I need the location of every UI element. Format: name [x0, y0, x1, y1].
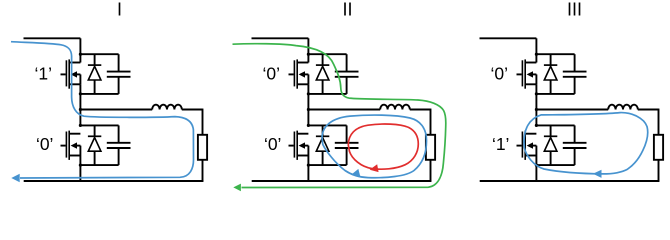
capacitor C1L top lead	[118, 125, 120, 142]
transistor Q1H source link	[79, 74, 81, 84]
wire inductor to load 1	[182, 109, 203, 111]
transistor Q3H gate lead	[517, 73, 522, 75]
junction bottom node 3H	[535, 92, 538, 95]
wire right rail lower 3	[658, 160, 660, 181]
transistor Q1L arrow tail	[77, 145, 81, 147]
wire lower cell top line 3L	[536, 124, 574, 126]
transistor Q2L drain stub	[297, 133, 308, 135]
transistor Q1L drain stub	[69, 133, 80, 135]
arrow blue panel I exit	[11, 174, 19, 183]
transistor Q3L drain stub	[525, 133, 536, 135]
arrow blue loop panel II	[350, 169, 360, 179]
wire right rail upper 1	[202, 109, 204, 135]
transistor Q2H gate bar	[293, 60, 295, 86]
node DC+ bus panel 2	[252, 37, 309, 39]
capacitor C2L bottom plate	[335, 147, 359, 149]
wire right rail upper 3	[658, 109, 660, 135]
transistor Q2H body arrow	[299, 71, 305, 77]
transistor Q3H channel bar	[524, 59, 526, 88]
capacitor C3H top plate	[563, 71, 587, 73]
wire rail drain 2H	[307, 38, 309, 62]
junction mid node 2	[307, 108, 310, 111]
transistor Q1L gate bar	[65, 132, 67, 158]
diode D3H triangle	[544, 66, 557, 80]
node DC+ bus panel 1	[24, 37, 81, 39]
capacitor C2L top plate	[335, 142, 359, 144]
wire rail source 1H	[79, 84, 81, 94]
node DC- bus panel 3	[480, 180, 660, 182]
wire right rail upper 2	[430, 109, 432, 135]
transistor Q1H source stub	[69, 83, 80, 85]
diode D1L anode wire	[94, 151, 96, 165]
transistor Q2L gate lead	[289, 145, 294, 147]
wire rail mid 2	[307, 94, 309, 126]
transistor Q1H arrow tail	[77, 73, 81, 75]
wire top node line 3H	[536, 53, 574, 55]
transistor Q1L source stub	[69, 155, 80, 157]
wire top node line 2H	[308, 53, 346, 55]
wire inductor to load 2	[410, 109, 431, 111]
wire right rail lower 2	[430, 160, 432, 181]
diode D2H triangle	[316, 66, 329, 80]
wire blue current path panel I	[11, 42, 194, 178]
wire right rail lower 1	[202, 160, 204, 181]
transistor Q3L channel bar	[524, 131, 526, 160]
transistor Q1H body arrow	[71, 71, 77, 77]
diode D2H cathode wire	[322, 54, 324, 65]
transistor Q2L channel bar	[296, 131, 298, 160]
wire rail mid 1	[79, 94, 81, 126]
transistor Q3H source stub	[525, 83, 536, 85]
wire lower cell bottom line 3L	[536, 164, 574, 166]
wire rail drain 3H	[535, 38, 537, 62]
arrow blue loop panel III	[593, 170, 602, 178]
wire rail source 1L	[79, 156, 81, 166]
junction bottom node 1H	[79, 92, 82, 95]
junction lower cell top 2	[307, 124, 310, 127]
wire mid rail to inductor 1	[80, 109, 152, 111]
transistor Q2L gate bar	[293, 132, 295, 158]
capacitor C1L top plate	[107, 142, 131, 144]
inductor L1	[152, 105, 182, 110]
transistor Q1L channel bar	[68, 131, 70, 160]
wire top node line 1H	[80, 53, 118, 55]
junction top node 1H	[79, 53, 82, 56]
capacitor C2H top plate	[335, 71, 359, 73]
transistor Q1H channel bar	[68, 59, 70, 88]
capacitor C3H bottom plate	[563, 76, 587, 78]
capacitor C2H top lead	[346, 54, 348, 71]
diode D1L triangle	[88, 138, 101, 152]
svg-text:III: III	[567, 0, 582, 20]
capacitor C1H top plate	[107, 71, 131, 73]
wire lower cell top line 2L	[308, 124, 346, 126]
diode D2L triangle	[316, 138, 329, 152]
junction mid node 1	[79, 108, 82, 111]
svg-text:I: I	[117, 0, 122, 20]
transistor Q2L body arrow	[299, 142, 305, 148]
transistor Q3H arrow tail	[533, 73, 537, 75]
capacitor C3H bottom lead	[574, 77, 576, 94]
transistor Q1H gate lead	[61, 73, 66, 75]
capacitor C2L bottom lead	[346, 148, 348, 165]
capacitor C3L top lead	[574, 125, 576, 142]
diode D1H cathode wire	[94, 54, 96, 65]
wire mid rail to inductor 2	[308, 109, 380, 111]
junction bottom node 2H	[307, 92, 310, 95]
diode D2L anode wire	[322, 151, 324, 165]
transistor Q2H drain stub	[297, 62, 308, 64]
transistor Q2L arrow tail	[305, 145, 309, 147]
wire lower cell bottom line 2L	[308, 164, 346, 166]
wire rail to DC- 2	[307, 165, 309, 182]
diode D1L cathode bar	[88, 135, 101, 137]
diode D1H cathode bar	[88, 64, 101, 66]
resistor R3 load	[654, 135, 663, 160]
svg-text:‘0’: ‘0’	[263, 63, 281, 83]
capacitor C3L bottom plate	[563, 147, 587, 149]
svg-text:‘0’: ‘0’	[264, 134, 282, 154]
diode D2H cathode bar	[316, 64, 329, 66]
capacitor C3L bottom lead	[574, 148, 576, 165]
junction top node 3H	[535, 53, 538, 56]
capacitor C2H bottom plate	[335, 76, 359, 78]
inductor L2	[380, 105, 410, 110]
wire rail source 2L	[307, 156, 309, 166]
wire lower cell bottom line 1L	[80, 164, 118, 166]
capacitor C3H top lead	[574, 54, 576, 71]
wire rail to DC- 1	[79, 165, 81, 182]
transistor Q3H body arrow	[527, 71, 533, 77]
inductor L3	[608, 105, 638, 110]
wire mid rail to inductor 3	[536, 109, 608, 111]
svg-text:‘1’: ‘1’	[35, 63, 53, 83]
wire inductor to load 3	[638, 109, 659, 111]
svg-text:II: II	[342, 0, 352, 20]
svg-text:‘0’: ‘0’	[491, 63, 509, 83]
diode D1H triangle	[88, 66, 101, 80]
transistor Q2H gate lead	[289, 73, 294, 75]
diode D2L cathode bar	[316, 135, 329, 137]
diode D2H anode wire	[322, 80, 324, 94]
wire rail to DC- 3	[535, 165, 537, 182]
diode D1H anode wire	[94, 80, 96, 94]
arrow red loop panel II	[369, 164, 379, 173]
transistor Q3L source stub	[525, 155, 536, 157]
node DC- bus panel 1	[24, 180, 204, 182]
capacitor C1L bottom lead	[118, 148, 120, 165]
transistor Q3H drain stub	[525, 62, 536, 64]
capacitor C1H bottom lead	[118, 77, 120, 94]
node DC- bus panel 2	[252, 180, 432, 182]
transistor Q3H gate bar	[521, 60, 523, 86]
wire bottom node line 3H	[536, 93, 574, 95]
transistor Q1L source link	[79, 146, 81, 156]
diode D3H cathode wire	[550, 54, 552, 65]
transistor Q3L gate bar	[521, 132, 523, 158]
wire lower cell top line 1L	[80, 124, 118, 126]
junction lower cell bottom 3	[535, 164, 538, 167]
wire bottom node line 2H	[308, 93, 346, 95]
transistor Q1L gate lead	[61, 145, 66, 147]
transistor Q2L source link	[307, 146, 309, 156]
wire rail mid 3	[535, 94, 537, 126]
junction lower cell top 1	[79, 124, 82, 127]
transistor Q3L gate lead	[517, 145, 522, 147]
diode D3L anode wire	[550, 151, 552, 165]
node DC+ bus panel 3	[480, 37, 537, 39]
diode D2L cathode wire	[322, 125, 324, 136]
diode D1L cathode wire	[94, 125, 96, 136]
junction lower cell bottom 1	[79, 164, 82, 167]
transistor Q2H channel bar	[296, 59, 298, 88]
transistor Q3L body arrow	[527, 142, 533, 148]
junction top node 2H	[307, 53, 310, 56]
transistor Q1H drain stub	[69, 62, 80, 64]
transistor Q2L source stub	[297, 155, 308, 157]
wire blue conduction loop panel III	[524, 113, 648, 174]
transistor Q3H source link	[535, 74, 537, 84]
junction lower cell top 3	[535, 124, 538, 127]
transistor Q3L source link	[535, 146, 537, 156]
resistor R2 load	[426, 135, 435, 160]
wire rail source 2H	[307, 84, 309, 94]
transistor Q2H arrow tail	[305, 73, 309, 75]
capacitor C3L top plate	[563, 142, 587, 144]
diode D3H cathode bar	[544, 64, 557, 66]
junction mid node 3	[535, 108, 538, 111]
wire bottom node line 1H	[80, 93, 118, 95]
capacitor C2H bottom lead	[346, 77, 348, 94]
capacitor C1L bottom plate	[107, 147, 131, 149]
wire rail drain 1H	[79, 38, 81, 62]
wire red oscillation loop panel II	[348, 124, 418, 169]
transistor Q2H source stub	[297, 83, 308, 85]
diode D3L cathode bar	[544, 135, 557, 137]
transistor Q1H gate bar	[65, 60, 67, 86]
svg-text:‘0’: ‘0’	[36, 134, 54, 154]
transistor Q3L arrow tail	[533, 145, 537, 147]
diode D3L cathode wire	[550, 125, 552, 136]
svg-text:‘1’: ‘1’	[492, 134, 510, 154]
wire rail source 3L	[535, 156, 537, 166]
diode D3H anode wire	[550, 80, 552, 94]
diode D3L triangle	[544, 138, 557, 152]
arrow green panel II exit	[233, 184, 241, 192]
junction lower cell bottom 2	[307, 164, 310, 167]
capacitor C1H bottom plate	[107, 76, 131, 78]
wire blue freewheel loop panel II	[322, 115, 427, 178]
wire green current path panel II	[233, 44, 446, 188]
transistor Q1L body arrow	[71, 142, 77, 148]
transistor Q2H source link	[307, 74, 309, 84]
capacitor C1H top lead	[118, 54, 120, 71]
wire rail source 3H	[535, 84, 537, 94]
resistor R1 load	[198, 135, 207, 160]
capacitor C2L top lead	[346, 125, 348, 142]
